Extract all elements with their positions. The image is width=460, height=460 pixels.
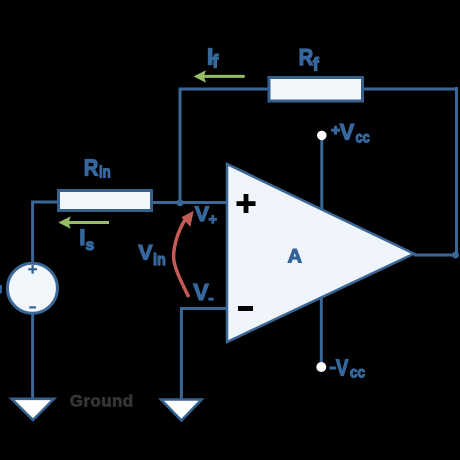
svg-text:V: V: [193, 279, 209, 305]
node: output junction dot: [452, 252, 459, 259]
label +Vcc: [331, 126, 340, 135]
wire: source to Rin horizontal: [32, 201, 60, 204]
svg-text:V: V: [138, 241, 153, 265]
svg-text:cc: cc: [350, 364, 365, 381]
wire: source bottom vertical: [31, 314, 34, 399]
wire: -Vcc vertical: [320, 298, 323, 363]
measurement arrow Vin (red): [174, 211, 194, 297]
wire: V+ node horizontal: [152, 201, 227, 204]
op-amp - input sign: [238, 306, 253, 311]
svg-text:f: f: [212, 52, 219, 72]
resistor Rf: [269, 78, 363, 102]
current arrow If (green): [194, 70, 245, 82]
svg-text:R: R: [84, 154, 99, 181]
wire: +Vcc vertical: [320, 140, 323, 209]
resistor Rin: [59, 191, 152, 211]
op-amp A triangle: [227, 164, 414, 342]
wire: feedback left vertical: [179, 89, 182, 204]
wire: V- horizontal into op-amp: [180, 307, 227, 310]
wire: V- vertical to ground: [180, 307, 183, 399]
source - sign: [29, 306, 36, 308]
current arrow Is (green): [58, 216, 109, 228]
svg-text:s: s: [85, 237, 94, 254]
svg-text:V: V: [336, 354, 349, 381]
svg-text:V: V: [340, 119, 355, 144]
svg-text:cc: cc: [356, 129, 370, 147]
svg-text:in: in: [153, 251, 166, 269]
source + sign: [28, 265, 37, 274]
svg-text:R: R: [299, 44, 314, 71]
cut-off label sliver at left edge: [0, 285, 2, 294]
label Rf: [299, 44, 314, 71]
label -Vcc: [329, 367, 336, 370]
svg-text:A: A: [288, 246, 302, 268]
svg-text:in: in: [99, 163, 111, 182]
svg-text:Ground: Ground: [70, 391, 134, 410]
svg-text:V: V: [195, 202, 210, 226]
label Rin: [84, 154, 99, 181]
wire: feedback top horizontal (right of Rf): [363, 88, 458, 91]
node: +Vcc terminal dot: [317, 131, 327, 141]
node: -Vcc terminal dot: [316, 362, 326, 372]
ground (right): [161, 400, 202, 421]
wire: feedback top horizontal (left of Rf): [179, 88, 269, 91]
node: V+ junction dot: [177, 199, 184, 206]
wire: right vertical: [455, 87, 458, 253]
ground (left): [12, 399, 55, 420]
wire: source top vertical: [31, 201, 34, 265]
svg-text:f: f: [313, 55, 320, 75]
wire: op-amp output: [414, 254, 455, 257]
voltage source: [7, 263, 57, 313]
op-amp + input sign: [237, 194, 256, 213]
